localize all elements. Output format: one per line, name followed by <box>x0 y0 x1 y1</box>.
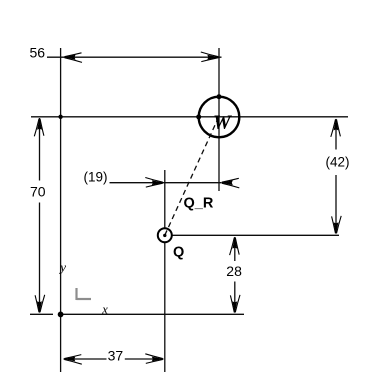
svg-text:56: 56 <box>30 45 46 61</box>
svg-text:y: y <box>58 260 66 275</box>
svg-text:W: W <box>213 112 232 134</box>
svg-text:37: 37 <box>108 348 124 364</box>
svg-text:(42): (42) <box>326 155 350 170</box>
svg-text:(19): (19) <box>84 170 108 185</box>
svg-text:28: 28 <box>226 263 242 279</box>
svg-text:Q: Q <box>173 245 184 261</box>
svg-text:x: x <box>101 303 108 317</box>
svg-text:70: 70 <box>30 184 46 200</box>
svg-text:Q_R: Q_R <box>184 196 214 212</box>
